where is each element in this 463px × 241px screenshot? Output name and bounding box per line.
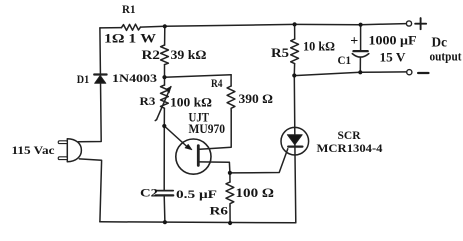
bottom rail (100, 222, 296, 223)
svg-text:1Ω 1 W: 1Ω 1 W (104, 30, 156, 45)
svg-text:115 Vac: 115 Vac (12, 143, 56, 157)
plug prong lower (58, 157, 67, 160)
node minus rail / SCR anode (292, 73, 296, 77)
wire R4 to UJT base-2 (200, 111, 232, 149)
svg-text:390 Ω: 390 Ω (239, 92, 274, 106)
plug prong upper (58, 141, 67, 144)
wire UJT base-1 to gate node (200, 162, 230, 173)
wire gate node to SCR gate (230, 149, 288, 173)
svg-text:1000 μF: 1000 μF (369, 32, 417, 47)
svg-text:R1: R1 (122, 2, 136, 16)
svg-text:R2: R2 (142, 48, 161, 62)
wire node to C2 (163, 126, 165, 190)
svg-text:+: + (350, 34, 358, 49)
wire R2 to node (164, 65, 166, 78)
label minus terminal (418, 72, 428, 74)
node top rail / R5 (293, 22, 297, 26)
svg-text:10 kΩ: 10 kΩ (303, 40, 335, 54)
wire minus rail (294, 72, 406, 76)
wire R5 to minus node and SCR anode (294, 64, 296, 223)
svg-text:R6: R6 (210, 204, 229, 218)
wire top-left from left rail to R1 (100, 27, 122, 29)
svg-text:39 kΩ: 39 kΩ (171, 48, 207, 62)
resistor R5 (291, 39, 299, 64)
node minus rail / C1 (358, 70, 362, 74)
capacitor C2 (156, 191, 174, 196)
svg-text:15 V: 15 V (380, 50, 406, 64)
node gate/R6 (228, 171, 232, 175)
svg-text:MCR1304-4: MCR1304-4 (317, 141, 383, 155)
wire node to R3 (164, 77, 166, 85)
left rail upper (down to plug) (78, 28, 101, 142)
label plus terminal (415, 18, 426, 29)
svg-text:Dc: Dc (432, 34, 448, 49)
resistor R1 (122, 24, 141, 30)
resistor R6 (226, 173, 234, 206)
svg-text:100 kΩ: 100 kΩ (170, 96, 212, 110)
UJT transistor MU970 (164, 126, 211, 174)
potentiometer R3 (155, 85, 171, 121)
svg-text:R5: R5 (271, 46, 289, 60)
terminal + output (406, 21, 411, 26)
node bottom rail / R6 (228, 221, 232, 225)
svg-text:0.5 μF: 0.5 μF (176, 187, 217, 201)
svg-text:1N4003: 1N4003 (112, 73, 157, 85)
left rail lower (plug to bottom rail) (79, 159, 101, 222)
svg-text:D1: D1 (77, 72, 89, 86)
wire C2 to bottom rail (163, 195, 166, 222)
svg-text:R3: R3 (140, 94, 156, 108)
node top rail / R2 (163, 24, 167, 28)
wire R2/R3 column upper lead (164, 26, 166, 45)
svg-text:100 Ω: 100 Ω (236, 186, 275, 200)
node top rail / C1 (359, 23, 363, 27)
svg-text:output: output (430, 50, 463, 64)
svg-text:R4: R4 (211, 78, 223, 90)
resistor R2 (161, 45, 169, 65)
SCR MCR1304-4 (281, 127, 309, 155)
svg-text:MU970: MU970 (189, 122, 226, 136)
terminal - output (407, 70, 412, 75)
wire from R1 to top rail junction (141, 25, 165, 28)
node R3/C2/emitter (162, 124, 166, 128)
wire node to R4 branch (165, 75, 232, 77)
svg-text:C1: C1 (338, 53, 352, 67)
plug body (AC line plug) (67, 139, 81, 162)
svg-text:C2: C2 (140, 185, 158, 199)
node R2/R3/R4 (162, 75, 166, 79)
wire R3 to node (163, 108, 165, 126)
resistor R4 (227, 75, 235, 111)
capacitor C1 (352, 25, 369, 73)
node bottom rail / C2 (163, 220, 167, 224)
diode D1 (94, 75, 106, 84)
wire SCR column: rail to R5 (294, 24, 296, 39)
wire top rail to + terminal (165, 24, 406, 27)
wire R6 to bottom rail (229, 206, 231, 223)
